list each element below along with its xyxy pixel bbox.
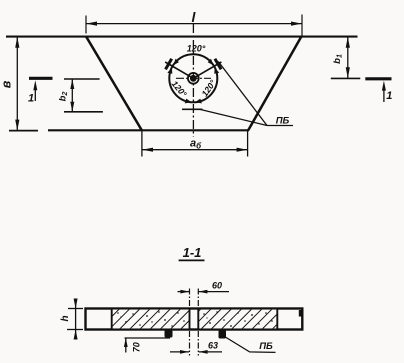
label h	[60, 315, 71, 321]
svg-text:1-1: 1-1	[183, 245, 202, 260]
dim 60 line right segment	[198, 291, 229, 293]
label 120 lower-left	[170, 79, 189, 99]
section cut mark left: thick line	[29, 77, 53, 80]
slab right slanted edge	[248, 36, 301, 130]
bottom-left reference tick for B dim	[9, 130, 38, 132]
centerline extensions above slab (joint edges)	[189, 289, 191, 308]
svg-text:l: l	[192, 9, 197, 25]
label b2	[58, 92, 70, 102]
dim 60 arrows	[180, 290, 189, 294]
svg-text:70: 70	[132, 342, 142, 352]
joint gap right edge	[197, 309, 199, 330]
svg-text:63: 63	[208, 341, 218, 351]
leader B from below-circle tick to PB	[201, 110, 268, 126]
svg-text:1: 1	[28, 93, 34, 105]
slab top edge (extended both sides as extension line)	[6, 36, 358, 38]
svg-text:в: в	[0, 80, 14, 88]
dim B arrow bottom	[15, 120, 19, 131]
dim 63 line right segment	[199, 351, 222, 353]
tick mark upper-right radial	[215, 59, 221, 70]
svg-text:b2: b2	[58, 92, 70, 102]
dim h bottom extension tick	[67, 329, 83, 331]
hub ring	[188, 73, 199, 84]
dim l arrow right	[291, 22, 302, 26]
svg-text:h: h	[60, 315, 71, 321]
loop tab 1 in section	[165, 330, 173, 338]
svg-text:b1: b1	[332, 54, 344, 64]
internal vertical line right end	[276, 309, 278, 330]
dim 63 arrows	[180, 350, 189, 354]
dim b2 bottom tick	[64, 111, 103, 113]
svg-text:ПБ: ПБ	[276, 115, 290, 126]
dim h top extension tick	[68, 308, 83, 310]
hatched concrete left slab	[112, 310, 190, 329]
hub dot	[190, 75, 197, 82]
radial line upper-right	[193, 62, 221, 78]
dim 60 line left segment	[178, 291, 190, 293]
slab left slanted edge	[86, 36, 142, 130]
label 120 lower-right	[199, 78, 218, 99]
dim l arrow left	[86, 22, 97, 26]
loop tab 2 in section	[219, 330, 227, 339]
dim b1 bottom tick	[331, 77, 361, 79]
svg-text:ПБ: ПБ	[259, 341, 273, 352]
hole circle	[169, 54, 217, 102]
dim a_b extension right	[247, 131, 249, 157]
dim 63 line left segment	[170, 351, 189, 353]
svg-text:аб: аб	[190, 137, 202, 150]
dim 70 reference line	[125, 337, 171, 339]
dim 70 arrow	[124, 338, 128, 347]
vertical centerline (dash-dot)	[192, 24, 194, 137]
dim b2 top tick	[64, 78, 100, 80]
dim l line	[86, 23, 302, 25]
radial line upper-left	[165, 62, 193, 78]
section cut mark left: view arrow	[34, 86, 36, 101]
notch right top corner	[299, 310, 303, 317]
svg-text:60: 60	[212, 281, 222, 291]
PB underline	[267, 125, 293, 127]
dim B line	[16, 37, 18, 131]
internal vertical line left end	[111, 309, 113, 330]
section cut mark right: thick line	[365, 77, 391, 80]
dim B arrow top	[15, 37, 19, 48]
slab bottom edge	[48, 129, 249, 131]
label 70	[132, 342, 142, 352]
dim a_b arrows	[142, 148, 153, 152]
dim a_b extension left	[141, 131, 143, 157]
dim b1 line	[347, 37, 349, 78]
svg-text:120°: 120°	[187, 44, 206, 54]
svg-text:1: 1	[386, 90, 392, 102]
PB bottom leader	[225, 337, 276, 353]
arc arrowheads of 120deg dims	[173, 59, 179, 66]
label b1	[332, 54, 344, 64]
leader A from upper-right tick to PB	[218, 62, 267, 126]
slab section body	[86, 309, 303, 330]
joint gap left edge	[189, 309, 191, 330]
tick below circle (loop mark)	[182, 108, 202, 110]
section cut mark right: view arrow	[383, 87, 385, 103]
centerline extensions below slab	[189, 331, 191, 356]
title underline	[179, 259, 205, 261]
dim b2 line	[71, 79, 73, 112]
tick mark upper-left radial	[166, 59, 172, 70]
hatched concrete right slab	[198, 310, 277, 329]
dim b2 arrows	[70, 79, 74, 89]
dim b1 arrows	[346, 37, 350, 48]
dim h line	[75, 300, 77, 339]
horizontal centerline at hub	[176, 77, 211, 79]
dim l extension line left	[85, 16, 87, 34]
dim 70 vertical line	[125, 338, 127, 353]
dim h arrows	[74, 299, 78, 309]
dim l extension line right	[301, 15, 303, 36]
concrete speckles	[117, 311, 273, 327]
dim a_b line	[142, 149, 248, 151]
